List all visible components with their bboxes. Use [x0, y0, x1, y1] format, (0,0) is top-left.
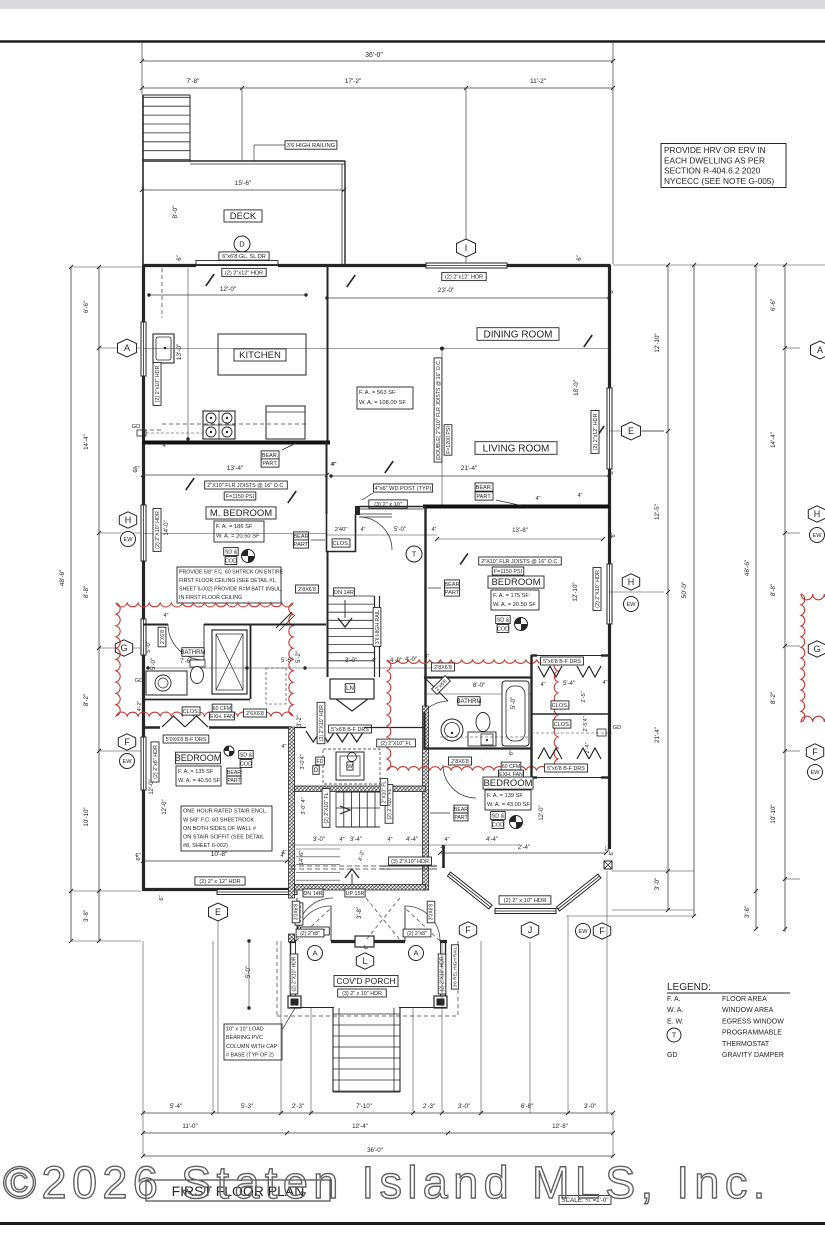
- svg-text:WINDOW AREA: WINDOW AREA: [722, 1007, 774, 1014]
- svg-text:(2) 2"X10" HDR: (2) 2"X10" HDR: [292, 956, 298, 991]
- svg-text:EACH DWELLING AS PER: EACH DWELLING AS PER: [664, 155, 765, 165]
- svg-text:(2) 2"X10" FL: (2) 2"X10" FL: [380, 741, 411, 747]
- svg-text:# BASE (TYP OF 2): # BASE (TYP OF 2): [226, 1052, 274, 1058]
- bifolds closets: [538, 666, 550, 677]
- svg-text:5"x6'8 B-F DRS: 5"x6'8 B-F DRS: [331, 727, 369, 733]
- living room label: [475, 442, 557, 455]
- svg-text:(3) 2" x 10" HDR: (3) 2" x 10" HDR: [342, 991, 382, 997]
- 13-8 dim bedroom2: [437, 538, 603, 540]
- svg-text:DN 14R: DN 14R: [303, 891, 322, 897]
- porch labels: [308, 946, 323, 961]
- closet under bath: [182, 707, 200, 715]
- svg-text:2'40": 2'40": [335, 527, 348, 533]
- right unit hexagons: [811, 341, 825, 359]
- svg-text:10'-10": 10'-10": [770, 804, 777, 823]
- svg-text:COD: COD: [225, 558, 237, 564]
- svg-text:21'-4": 21'-4": [461, 465, 478, 472]
- right windows: [607, 388, 612, 469]
- svg-text:(2) 2"X10" FL: (2) 2"X10" FL: [324, 792, 330, 823]
- porch steps: [332, 1008, 334, 1092]
- svg-text:3'-0": 3'-0": [313, 837, 325, 843]
- svg-text:D: D: [314, 768, 319, 774]
- svg-text:A: A: [413, 949, 418, 958]
- I hexagon: [457, 239, 476, 257]
- svg-text:F. A. = 135 SF: F. A. = 135 SF: [178, 769, 214, 775]
- svg-text:2'8X6'8: 2'8X6'8: [451, 759, 469, 765]
- red cloud center: [387, 660, 558, 770]
- bottom dim row2: [143, 1132, 613, 1134]
- bottom dim row3: [143, 1155, 613, 1157]
- svg-text:2'8X6'8: 2'8X6'8: [298, 587, 316, 593]
- svg-text:12'-0": 12'-0": [539, 805, 545, 820]
- svg-text:14'-6": 14'-6": [299, 851, 305, 866]
- svg-text:3'0X6'8: 3'0X6'8: [294, 904, 300, 921]
- svg-text:7'-8": 7'-8": [187, 78, 201, 85]
- svg-text:4": 4": [602, 680, 607, 686]
- svg-text:F. A.: F. A.: [667, 996, 681, 1003]
- svg-text:(DOUBLE) 2"X10" FLR JOISTS @ 1: (DOUBLE) 2"X10" FLR JOISTS @ 16" O.C.: [436, 360, 442, 461]
- svg-text:4'-2": 4'-2": [137, 701, 143, 711]
- svg-text:4'-4": 4'-4": [406, 837, 418, 843]
- bath door: [203, 624, 205, 660]
- svg-text:EW: EW: [810, 770, 820, 776]
- joist slashes dining: [347, 275, 355, 287]
- svg-text:H: H: [814, 509, 821, 519]
- bath2 walls: [424, 676, 531, 678]
- right unit dim lines: [755, 265, 757, 929]
- svg-text:I: I: [465, 243, 468, 253]
- kitchen sink: [153, 334, 174, 363]
- svg-text:6": 6": [177, 255, 183, 260]
- right extensions: [613, 264, 700, 266]
- svg-text:14'-0": 14'-0": [164, 520, 170, 535]
- svg-text:3'-0": 3'-0": [654, 878, 661, 890]
- svg-text:T: T: [672, 1033, 677, 1040]
- bearing wall kitchen/bedroom: [143, 441, 330, 445]
- hdr labels top: [222, 268, 266, 276]
- bear part label living: [475, 483, 493, 491]
- svg-text:BEAR: BEAR: [227, 770, 241, 776]
- svg-text:5'-3": 5'-3": [241, 1103, 253, 1110]
- svg-text:5"x6'8 B-F DRS: 5"x6'8 B-F DRS: [543, 659, 581, 665]
- svg-text:BEAR.: BEAR.: [476, 485, 493, 491]
- svg-text:4": 4": [540, 682, 545, 688]
- left hex markers: [118, 339, 137, 357]
- svg-text:COV'D PORCH: COV'D PORCH: [336, 976, 395, 986]
- svg-text:BEAR.: BEAR.: [262, 453, 279, 459]
- svg-text:F: F: [812, 747, 818, 757]
- svg-text:3'-0": 3'-0": [345, 658, 357, 664]
- dashed closet outline: [266, 668, 286, 704]
- bedroom door lower left: [297, 898, 333, 934]
- svg-text:2"X10" FLR JOISTS @ 16" O.C.: 2"X10" FLR JOISTS @ 16" O.C.: [481, 559, 558, 565]
- svg-text:12'-4": 12'-4": [352, 1123, 368, 1130]
- svg-text:60 CFM: 60 CFM: [213, 706, 231, 712]
- svg-text:ON STAIR SOFFIT (SEE DETAIL: ON STAIR SOFFIT (SEE DETAIL: [183, 835, 264, 841]
- D circle: [234, 236, 250, 252]
- svg-text:BATHRM: BATHRM: [457, 699, 482, 705]
- svg-text:2'-5'4": 2'-5'4": [583, 716, 589, 731]
- SD COD: [224, 548, 239, 556]
- svg-text:BEAR: BEAR: [293, 534, 308, 540]
- svg-text:©2026 Staten Island MLS, Inc.: ©2026 Staten Island MLS, Inc.: [3, 1157, 771, 1208]
- svg-text:A: A: [312, 949, 317, 958]
- svg-text:W. A. = 40.50 SF: W. A. = 40.50 SF: [178, 778, 221, 784]
- svg-text:(3) 2"X10" HDR: (3) 2"X10" HDR: [319, 705, 325, 742]
- svg-text:SD &: SD &: [497, 617, 510, 623]
- mini closet diagonal door: [276, 612, 292, 628]
- joist labels: [205, 481, 288, 489]
- svg-text:F: F: [599, 926, 605, 936]
- closet walls right: [531, 654, 537, 656]
- svg-text:EXH. FAN: EXH. FAN: [210, 714, 234, 720]
- porch dashed outline: [276, 941, 278, 1016]
- left inner dim: [98, 267, 100, 941]
- toilet: [190, 660, 205, 667]
- svg-text:BATHRM: BATHRM: [181, 650, 206, 656]
- bifold hall top: [295, 727, 306, 729]
- double joist vertical labels: [441, 348, 443, 505]
- svg-text:3'-2": 3'-2": [297, 715, 303, 727]
- svg-text:4": 4": [440, 845, 445, 851]
- sliding door top: [196, 261, 278, 265]
- joist slashes kitchen: [206, 274, 214, 286]
- svg-text:4": 4": [330, 462, 335, 468]
- dim 36-0 top: [142, 60, 613, 62]
- porch front edge: [290, 1007, 334, 1009]
- svg-text:11'-0": 11'-0": [182, 1123, 197, 1130]
- svg-text:21'-4": 21'-4": [654, 727, 661, 743]
- svg-text:18'-0": 18'-0": [573, 380, 580, 396]
- svg-text:4": 4": [162, 443, 167, 449]
- stove: [203, 411, 235, 439]
- bear part hall: [444, 580, 459, 588]
- dim row y845 right: [425, 844, 443, 846]
- top gray browser bar: [0, 0, 825, 9]
- svg-text:COD: COD: [240, 761, 252, 767]
- svg-text:DN 14R: DN 14R: [334, 590, 354, 596]
- svg-text:BEDROOM: BEDROOM: [483, 778, 532, 789]
- left wall labels H F: [153, 509, 161, 552]
- toilet2: [476, 713, 490, 732]
- svg-text:2'X6'8: 2'X6'8: [160, 630, 166, 644]
- svg-text:BEAR: BEAR: [454, 807, 468, 813]
- svg-text:6": 6": [609, 469, 615, 474]
- svg-text:6'-8": 6'-8": [521, 1103, 533, 1110]
- svg-text:6'-6": 6'-6": [83, 301, 90, 313]
- svg-text:4": 4": [577, 493, 582, 499]
- svg-text:FD: FD: [317, 759, 324, 765]
- svg-text:(2) 2"x10" HDR: (2) 2"x10" HDR: [155, 366, 161, 403]
- svg-text:F: F: [124, 737, 130, 747]
- svg-text:8'-2": 8'-2": [770, 692, 777, 704]
- svg-text:3'0X6'8: 3'0X6'8: [429, 904, 435, 921]
- svg-text:14'-4": 14'-4": [83, 434, 90, 450]
- svg-text:W. A. = 20.50 SF: W. A. = 20.50 SF: [216, 534, 260, 540]
- svg-text:PART.: PART.: [262, 461, 278, 467]
- 3-6 high railing label: [285, 141, 337, 149]
- door arc right entry: [405, 906, 440, 941]
- svg-text:(2) 2" x 10" HDR: (2) 2" x 10" HDR: [504, 898, 547, 904]
- svg-text:2'-3": 2'-3": [423, 1103, 435, 1110]
- tub: [502, 681, 529, 746]
- svg-text:H: H: [628, 577, 635, 587]
- svg-text:8'-0": 8'-0": [172, 205, 179, 219]
- right dim col1: [667, 265, 669, 910]
- gl sl dr label: [219, 252, 269, 260]
- svg-text:23'-0": 23'-0": [438, 287, 455, 294]
- svg-text:3'-4": 3'-4": [350, 837, 362, 843]
- hall east wall upper: [424, 506, 426, 677]
- svg-text:6'-6": 6'-6": [770, 299, 777, 311]
- svg-text:SD &: SD &: [225, 549, 238, 555]
- svg-text:5"x6'8 B-F DRS: 5"x6'8 B-F DRS: [547, 766, 585, 772]
- svg-text:2"X10" FLR JOISTS @ 16" O.C.: 2"X10" FLR JOISTS @ 16" O.C.: [207, 483, 284, 489]
- m bedroom east wall: [326, 442, 328, 514]
- FA box: [214, 521, 264, 542]
- column note: [224, 1024, 282, 1060]
- svg-text:GD: GD: [132, 424, 141, 430]
- svg-text:F=1200 PSI: F=1200 PSI: [446, 426, 452, 454]
- svg-text:(2) 2"X10" HDR: (2) 2"X10" HDR: [595, 570, 601, 608]
- hex J F EW-F: [459, 922, 476, 938]
- dashed break lines: [291, 865, 390, 867]
- svg-text:NYCECC (SEE NOTE G-005): NYCECC (SEE NOTE G-005): [664, 176, 774, 186]
- svg-text:3'-8": 3'-8": [84, 910, 90, 922]
- svg-text:ON BOTH SIDES OF WALL #: ON BOTH SIDES OF WALL #: [183, 826, 257, 832]
- right unit extensions: [700, 264, 825, 266]
- svg-text:36'-0": 36'-0": [365, 52, 383, 59]
- deck 15-6 dim: [142, 189, 344, 191]
- svg-text:PART: PART: [445, 590, 460, 596]
- svg-text:6": 6": [135, 853, 140, 859]
- svg-text:BEARING PVC: BEARING PVC: [226, 1035, 263, 1041]
- bay hdr label: [499, 896, 551, 904]
- kitchen/dining separator wall: [327, 267, 329, 441]
- svg-text:LEGEND:: LEGEND:: [667, 982, 711, 993]
- sink2: [441, 719, 463, 741]
- svg-text:IN FIRST FLOOR CEILING: IN FIRST FLOOR CEILING: [179, 595, 242, 601]
- svg-text:PROGRAMMABLE: PROGRAMMABLE: [722, 1030, 782, 1037]
- porch columns: [288, 996, 301, 1008]
- svg-text:50'-0": 50'-0": [681, 581, 688, 598]
- bay diag window left: [447, 872, 492, 909]
- svg-text:5'0X6'8 B-F DRS: 5'0X6'8 B-F DRS: [166, 737, 207, 743]
- door arc bedroom139: [443, 765, 476, 798]
- top wall: [143, 264, 196, 267]
- 2-4 dim: [440, 852, 606, 854]
- svg-text:F. A. = 175 SF: F. A. = 175 SF: [493, 593, 529, 599]
- front doors arcs: [330, 906, 332, 941]
- svg-text:COD: COD: [497, 626, 509, 632]
- M BEDROOM label: [206, 507, 276, 519]
- svg-text:G: G: [813, 644, 820, 654]
- svg-text:4": 4": [281, 850, 286, 856]
- svg-text:CLOS.: CLOS.: [554, 722, 571, 728]
- svg-text:15'-6": 15'-6": [235, 180, 252, 187]
- LN closet: [330, 679, 374, 699]
- scale box: [559, 1196, 611, 1205]
- svg-text:CLOS.: CLOS.: [183, 709, 200, 715]
- svg-text:KITCHEN: KITCHEN: [239, 350, 281, 361]
- svg-text:6": 6": [364, 944, 370, 949]
- door m bedroom: [359, 513, 392, 515]
- svg-text:(2) 2"x12" HDR: (2) 2"x12" HDR: [225, 270, 263, 276]
- svg-text:2'-4": 2'-4": [585, 742, 591, 753]
- hdr label right wall E window: [591, 411, 599, 454]
- svg-text:6": 6": [608, 533, 614, 538]
- svg-text:5'-0": 5'-0": [146, 641, 152, 653]
- 13-4 dim: [143, 474, 327, 476]
- left outer dim 48-6: [70, 267, 72, 941]
- svg-text:EW: EW: [578, 929, 588, 935]
- svg-text:SHEET 6-002) PROVIDE R=M BATT: SHEET 6-002) PROVIDE R=M BATT INSUL.: [179, 587, 282, 593]
- svg-text:2'6X6'8: 2'6X6'8: [246, 711, 264, 717]
- svg-text:3'-0": 3'-0": [584, 1103, 596, 1110]
- svg-text:GD: GD: [135, 678, 144, 684]
- svg-text:PART: PART: [294, 542, 309, 548]
- svg-text:#8, SHEET 6-002): #8, SHEET 6-002): [183, 843, 228, 849]
- 23-0 dim: [327, 297, 609, 299]
- top window dining: [426, 263, 507, 268]
- svg-text:COLUMN WITH CAP: COLUMN WITH CAP: [226, 1044, 278, 1050]
- bath labels: [181, 648, 206, 657]
- svg-text:12'-10": 12'-10": [572, 582, 579, 601]
- kitchen 13-0 vdim: [187, 268, 189, 439]
- svg-text:(3) 2"X10" HDR: (3) 2"X10" HDR: [391, 859, 429, 865]
- svg-text:FIRST FLOOR CEILING (SEE DETAI: FIRST FLOOR CEILING (SEE DETAIL #1,: [179, 578, 277, 584]
- bear part m bedroom: [293, 532, 308, 540]
- svg-text:(2) 2"x8" HDR: (2) 2"x8" HDR: [153, 745, 159, 779]
- svg-text:GRAVITY DAMPER: GRAVITY DAMPER: [722, 1052, 784, 1059]
- svg-text:13'-0": 13'-0": [176, 343, 183, 360]
- svg-text:J: J: [528, 925, 533, 935]
- right dim col2 50-0: [693, 265, 695, 916]
- svg-text:E. W.: E. W.: [667, 1018, 684, 1025]
- svg-text:2'-5": 2'-5": [581, 691, 587, 702]
- dashed fridge line: [161, 268, 163, 318]
- svg-text:4": 4": [424, 654, 429, 660]
- svg-text:3'-0" 4": 3'-0" 4": [301, 797, 307, 814]
- svg-text:L: L: [362, 956, 367, 966]
- hall west hatched wall: [289, 727, 295, 898]
- svg-text:6": 6": [577, 255, 583, 260]
- svg-text:A: A: [817, 345, 823, 355]
- svg-text:3'-0": 3'-0": [458, 1103, 470, 1110]
- svg-text:3'6 REL HIGH RAIL: 3'6 REL HIGH RAIL: [453, 946, 458, 987]
- bearing wall 2: [359, 506, 423, 508]
- svg-text:SD &: SD &: [240, 752, 253, 758]
- svg-text:13'-4": 13'-4": [227, 465, 244, 472]
- svg-text:(2) 2"x12" HDR: (2) 2"x12" HDR: [593, 414, 599, 451]
- svg-text:4": 4": [371, 658, 376, 664]
- svg-text:12'-0": 12'-0": [162, 799, 168, 814]
- top extension lines: [141, 43, 143, 95]
- dim row2 top: [142, 87, 613, 89]
- dim row y845: [291, 844, 425, 846]
- svg-text:UP 15R: UP 15R: [346, 891, 365, 897]
- svg-text:(2) 2"x12" HDR: (2) 2"x12" HDR: [445, 274, 483, 280]
- svg-text:6": 6": [609, 288, 615, 293]
- wall right of bifold: [364, 727, 425, 729]
- svg-text:6"x6'8 GL. SL DR: 6"x6'8 GL. SL DR: [222, 254, 266, 260]
- svg-text:4": 4": [281, 744, 286, 750]
- bay diag window right: [556, 874, 601, 911]
- dims around stairs: [327, 667, 440, 669]
- svg-text:3'-8": 3'-8": [745, 906, 751, 918]
- svg-text:PART: PART: [454, 815, 468, 821]
- svg-text:CLOS.: CLOS.: [333, 541, 350, 547]
- svg-text:THERMOSTAT: THERMOSTAT: [722, 1041, 770, 1048]
- svg-text:8'-8": 8'-8": [83, 586, 90, 598]
- svg-text:SD &: SD &: [492, 813, 505, 819]
- svg-text:LN: LN: [346, 686, 354, 692]
- counter right of stove: [266, 406, 305, 439]
- svg-text:8'-0": 8'-0": [473, 682, 485, 689]
- svg-text:F. A. = 186 SF: F. A. = 186 SF: [216, 524, 253, 530]
- svg-text:4": 4": [163, 613, 168, 619]
- svg-text:(2) 2"X10" HDR: (2) 2"X10" HDR: [440, 956, 446, 991]
- svg-text:PROVIDE 5/8" F.C. 60 SHTRCK ON: PROVIDE 5/8" F.C. 60 SHTRCK ON ENTIRE: [179, 569, 284, 575]
- FA WA box dining: [357, 387, 413, 409]
- svg-text:EW: EW: [123, 537, 133, 543]
- svg-text:4": 4": [431, 527, 436, 533]
- svg-text:H: H: [125, 515, 132, 525]
- left extensions: [71, 266, 141, 268]
- bay wall left vertical: [442, 845, 445, 868]
- vanity: [146, 671, 187, 695]
- svg-text:G: G: [120, 643, 127, 653]
- svg-text:36'-0": 36'-0": [367, 1147, 383, 1154]
- svg-text:4": 4": [387, 837, 392, 843]
- lower stair flight (2): [335, 792, 337, 827]
- svg-text:2"X10" FL: 2"X10" FL: [382, 781, 388, 804]
- svg-text:10'-10": 10'-10": [83, 807, 90, 826]
- 21-4 dim: [331, 475, 609, 477]
- bath2 labels: [457, 697, 482, 706]
- svg-text:M. BEDROOM: M. BEDROOM: [210, 508, 272, 519]
- svg-text:W. A.: W. A.: [667, 1007, 683, 1014]
- svg-text:F=1150 PSI: F=1150 PSI: [226, 494, 254, 500]
- red cloud left: [116, 603, 293, 716]
- right wall: [608, 265, 611, 388]
- svg-text:PART: PART: [227, 778, 241, 784]
- svg-text:5'-2": 5'-2": [296, 651, 302, 663]
- svg-text:SECTION R-404.6.2 2020: SECTION R-404.6.2 2020: [664, 166, 761, 176]
- dims row y535: [327, 534, 437, 536]
- stairwell left wall: [327, 552, 329, 677]
- svg-text:10'-8": 10'-8": [211, 851, 228, 858]
- left wall: [142, 265, 145, 322]
- svg-text:GD: GD: [613, 725, 622, 731]
- svg-text:(2) 2"x8": (2) 2"x8": [407, 931, 427, 937]
- svg-text:6": 6": [609, 850, 615, 855]
- hdr label below sink: [153, 363, 161, 406]
- svg-text:ONE HOUR RATED STAIR ENCL.: ONE HOUR RATED STAIR ENCL.: [183, 809, 268, 815]
- DECK label: [224, 210, 262, 222]
- svg-text:A: A: [124, 343, 130, 353]
- svg-text:12'-0": 12'-0": [149, 779, 155, 794]
- front door wall: [289, 940, 296, 943]
- kitchen island: [218, 334, 306, 375]
- svg-text:COD: COD: [492, 822, 504, 828]
- hatched wall 2: [295, 885, 426, 891]
- svg-text:BEDROOM: BEDROOM: [491, 577, 540, 588]
- closet walls: [326, 514, 328, 552]
- first floor plan title: [146, 1180, 330, 1201]
- svg-text:6": 6": [159, 895, 165, 900]
- svg-text:DINING ROOM: DINING ROOM: [484, 329, 553, 340]
